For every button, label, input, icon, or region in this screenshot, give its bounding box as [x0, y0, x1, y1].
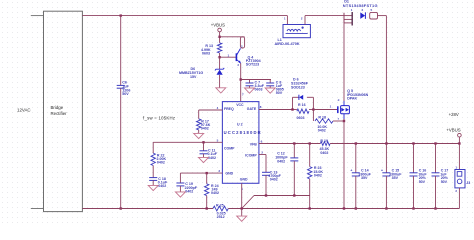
zener diode D5 [219, 57, 221, 69]
pin 5 hook of D1 [370, 12, 378, 19]
svg-text:50V: 50V [441, 180, 448, 184]
svg-text:0402: 0402 [320, 151, 328, 155]
ground below D5 [216, 88, 226, 93]
capacitor C17 [434, 142, 436, 144]
svg-text:GND: GND [240, 177, 248, 181]
wire GATE to driver [259, 109, 293, 111]
svg-text:J3: J3 [466, 181, 470, 185]
resistor R13 [217, 43, 221, 53]
svg-text:0402: 0402 [314, 174, 322, 178]
capacitor C11 [203, 142, 205, 151]
node Q4 collector branch [218, 36, 220, 38]
node VBUS bus junctions [385, 142, 387, 144]
svg-text:2512: 2512 [217, 215, 225, 219]
resistor R22 [152, 142, 154, 153]
svg-text:R 16: R 16 [298, 103, 306, 107]
ground below C19 [175, 192, 185, 197]
resistor R25 sense [213, 206, 228, 211]
wire collector branch [220, 36, 245, 38]
capacitor C16 [412, 142, 414, 144]
svg-text:50V: 50V [276, 91, 283, 95]
svg-text:50V: 50V [122, 92, 129, 96]
bridge rectifier BR1 [44, 11, 83, 211]
capacitor C7 [249, 80, 251, 84]
capacitor C13 [265, 155, 267, 173]
svg-text:0402: 0402 [318, 129, 326, 133]
svg-text:AIRD-06-470K: AIRD-06-470K [275, 42, 300, 46]
wire bottom rail [82, 208, 213, 210]
wire L1 to D1 [305, 15, 344, 17]
wire gate to Q5 [313, 109, 337, 111]
wire top rectified rail [82, 15, 287, 17]
svg-text:+VBUS: +VBUS [446, 127, 460, 132]
node R24 tap [206, 172, 208, 174]
svg-text:f_sw = 105KHz: f_sw = 105KHz [143, 115, 175, 120]
node R24 rail [206, 207, 208, 209]
ground below C8 [265, 88, 275, 93]
node C11 tap [202, 141, 204, 143]
svg-text:GND: GND [225, 172, 233, 176]
svg-text:0402: 0402 [185, 189, 193, 193]
wire ICOMP pin [259, 154, 266, 156]
svg-text:DPAK: DPAK [347, 96, 357, 100]
node base of Q4 [218, 56, 220, 58]
wire D1 to VBUS vertical [378, 15, 387, 17]
svg-text:15V: 15V [190, 75, 197, 79]
resistor R23 [309, 142, 311, 144]
svg-text:+: + [381, 168, 383, 172]
svg-text:Bridge: Bridge [51, 105, 64, 110]
capacitor C19 [179, 173, 181, 183]
svg-text:0402: 0402 [211, 191, 219, 195]
wire VBUS vertical [385, 16, 387, 144]
node C6 top junction [120, 14, 122, 16]
svg-text:NTS15458FST1G: NTS15458FST1G [343, 3, 378, 8]
svg-text:UCC28180DR: UCC28180DR [224, 130, 262, 135]
svg-text:0603: 0603 [255, 88, 263, 92]
ground below C7 [245, 88, 255, 93]
capacitor C18 [152, 166, 154, 178]
svg-text:d: d [338, 98, 340, 102]
svg-text:0402: 0402 [201, 127, 209, 131]
wire COMP pin [153, 141, 222, 143]
node GND rail junction [241, 207, 243, 209]
svg-text:ICOMP: ICOMP [245, 153, 257, 157]
wire ISNS pin3 [180, 172, 222, 174]
svg-text:0402: 0402 [270, 178, 278, 182]
node VCC junction [240, 78, 242, 80]
svg-text:0603: 0603 [202, 51, 210, 55]
svg-text:35V: 35V [392, 176, 399, 180]
svg-text:VFB: VFB [250, 143, 257, 147]
svg-text:0402: 0402 [158, 184, 166, 188]
connector J3 [458, 144, 460, 170]
svg-text:SOT223: SOT223 [246, 63, 259, 67]
svg-text:0402: 0402 [157, 161, 165, 165]
svg-text:+: + [350, 168, 352, 172]
ground below C18 [148, 185, 158, 190]
node subrail rail [309, 207, 311, 209]
svg-text:+VBUS: +VBUS [211, 22, 225, 27]
ground below R17 [194, 133, 204, 138]
wire base Q4 [220, 56, 236, 58]
resistor R17 FREQ [199, 109, 223, 111]
op IC U2 UCC28180DR [222, 102, 259, 184]
ground main [241, 209, 243, 217]
wire AC input stubs [31, 15, 44, 17]
transistor Q5 mosfet [341, 106, 350, 114]
wire VCC branch [241, 79, 271, 81]
ground below C11 [199, 157, 209, 162]
svg-text:12VAC: 12VAC [17, 108, 31, 113]
svg-text:GATE: GATE [247, 107, 257, 111]
capacitor C15 [385, 144, 387, 173]
wire Q4 emitter to VCC rail [240, 63, 242, 101]
svg-text:+28V: +28V [449, 112, 459, 117]
svg-text:R 25: R 25 [216, 203, 224, 207]
svg-text:VCC: VCC [236, 103, 244, 107]
svg-text:R 18: R 18 [318, 116, 326, 120]
collector hook of Q4 [240, 37, 244, 48]
svg-text:SOD123: SOD123 [291, 85, 305, 89]
wire GND pin1 drop [241, 183, 243, 208]
capacitor C14 [355, 142, 357, 144]
node C6 bottom junction [120, 207, 122, 209]
wire VFB and VBUS line [259, 143, 321, 145]
svg-text:0603: 0603 [297, 116, 305, 120]
wire switch node vertical [343, 23, 345, 101]
svg-text:35V: 35V [361, 176, 368, 180]
svg-text:U 2: U 2 [237, 123, 243, 127]
svg-text:50V: 50V [419, 180, 426, 184]
capacitor C8 [269, 80, 271, 84]
svg-text:FREQ: FREQ [224, 107, 234, 111]
capacitor C12 on VFB [293, 142, 295, 144]
resistor R19 [320, 142, 330, 146]
svg-text:0402: 0402 [208, 156, 216, 160]
resistor R16 gate [293, 109, 297, 111]
diode D1 [343, 13, 345, 24]
wire analog subrail [254, 195, 310, 197]
svg-text:COMP: COMP [224, 147, 235, 151]
diode D6 antiparallel [292, 97, 294, 109]
transistor Q4 [235, 53, 237, 61]
wire Q5 source down [343, 119, 345, 209]
resistor R18 gate-source [312, 110, 314, 122]
svg-text:Rectifier: Rectifier [51, 111, 68, 116]
svg-text:0402: 0402 [277, 159, 285, 163]
wire diag to analog subrail [242, 196, 254, 209]
svg-text:R 19: R 19 [320, 139, 328, 143]
resistor R24 [206, 173, 208, 184]
inductor L1 [286, 16, 288, 25]
capacitor C6 [120, 16, 122, 86]
